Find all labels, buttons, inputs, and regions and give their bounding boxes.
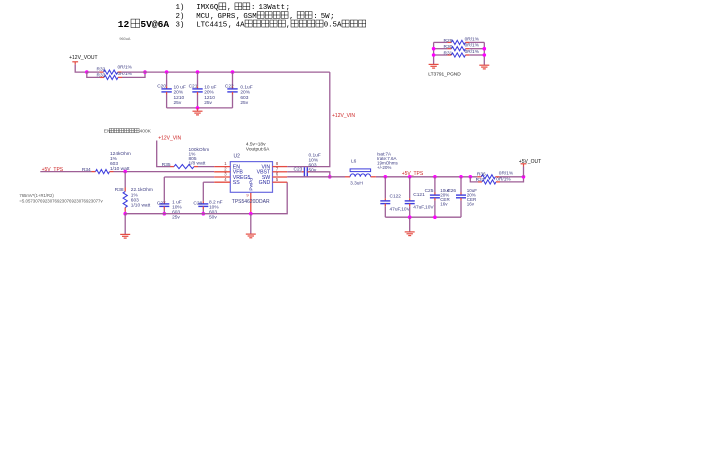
pin stub PwPd long (pin 9) <box>250 192 252 213</box>
svg-text:L6: L6 <box>351 159 357 165</box>
svg-text:47uF,10V: 47uF,10V <box>390 206 411 212</box>
svg-text:,: , <box>289 13 293 21</box>
svg-text:603: 603 <box>240 95 248 101</box>
svg-text:0.5A: 0.5A <box>324 22 342 30</box>
capacitor C26 <box>460 177 462 193</box>
svg-text:,: , <box>286 22 290 30</box>
pin stub GND (pin 5) <box>273 181 288 183</box>
svg-text:50v: 50v <box>209 215 217 221</box>
svg-text:3): 3) <box>176 22 185 30</box>
svg-text:5V@6A: 5V@6A <box>140 19 169 30</box>
svg-text:1%: 1% <box>131 192 139 198</box>
wire C23 to SW node <box>310 172 330 177</box>
wire L6 to output caps <box>376 176 478 178</box>
capacitor C28 <box>202 182 204 201</box>
svg-text:C21: C21 <box>189 84 198 90</box>
wire R37 bypass down <box>470 177 478 182</box>
wire R38 to gnd rail <box>124 212 126 214</box>
svg-text:,: , <box>227 4 231 12</box>
capacitor C25 <box>434 177 436 193</box>
svg-text:R35: R35 <box>162 162 171 168</box>
svg-text:SS: SS <box>233 180 240 186</box>
svg-text:C20: C20 <box>157 84 166 90</box>
wire ground rail <box>125 182 287 214</box>
svg-text:0.1uF: 0.1uF <box>240 85 252 91</box>
svg-text:C25: C25 <box>425 188 434 194</box>
wire R29 network right vertical <box>483 42 485 65</box>
junction R38 bottom <box>123 212 127 216</box>
svg-text:R32: R32 <box>97 67 106 73</box>
svg-text:400K: 400K <box>140 129 152 135</box>
resistor R38 <box>124 188 126 192</box>
ground below R38 <box>120 233 130 235</box>
wire VFB down to R38 <box>124 172 126 188</box>
svg-text:0R/1%: 0R/1% <box>118 65 133 71</box>
svg-text:1210: 1210 <box>174 95 185 101</box>
junction R32/R33 split <box>85 70 89 74</box>
resistor R30 <box>447 48 451 50</box>
svg-text:0R/1%: 0R/1% <box>499 171 514 177</box>
svg-text:960uA: 960uA <box>119 37 130 41</box>
wire row R31 left <box>434 54 448 56</box>
svg-text:+12V_VOUT: +12V_VOUT <box>69 55 98 61</box>
svg-text:+/-20%: +/-20% <box>377 165 391 170</box>
power +12V_VOUT symbol <box>72 61 78 63</box>
svg-text:,: , <box>228 22 232 30</box>
svg-text:4A: 4A <box>236 22 245 30</box>
junction C21 top <box>196 70 200 74</box>
svg-text:,: , <box>210 13 214 21</box>
wire R36 to +5V_OUT node <box>499 176 523 178</box>
wire row R31 right <box>469 54 484 56</box>
wire VBST to C23 <box>287 171 302 173</box>
svg-text:R30: R30 <box>444 44 453 50</box>
resistor R31 <box>447 54 451 56</box>
svg-text:10 uF: 10 uF <box>174 85 186 91</box>
svg-text:GND: GND <box>259 180 271 186</box>
svg-text:0R/1%: 0R/1% <box>465 36 480 42</box>
ground of input cap bank <box>193 110 203 112</box>
junction R32/R33 join <box>143 70 147 74</box>
wire SS row <box>203 181 214 183</box>
svg-text:603: 603 <box>131 197 139 203</box>
svg-text:EN: EN <box>104 129 111 135</box>
ground below U2 <box>246 233 256 235</box>
pin stub SS (pin 4) <box>214 181 230 183</box>
wire R33 bypass down-right <box>87 72 100 77</box>
svg-text:,: , <box>236 13 240 21</box>
svg-text:Voutput:6A: Voutput:6A <box>246 146 270 152</box>
pin stub SW (pin 6) <box>273 176 288 178</box>
svg-text:;: ; <box>330 13 334 21</box>
ground LT3791_PGND <box>429 63 439 65</box>
svg-text:LTC4415: LTC4415 <box>196 22 227 30</box>
junction C20 top <box>165 70 169 74</box>
junction C25 top <box>433 175 437 179</box>
junction output rail C121 <box>408 215 412 219</box>
resistor R35 <box>170 166 174 168</box>
svg-text:R31: R31 <box>444 50 453 56</box>
wire cap bank bottom rail <box>167 107 233 109</box>
capacitor C121 <box>409 177 411 199</box>
svg-text:R36: R36 <box>477 171 486 177</box>
junction C122 top <box>384 175 388 179</box>
svg-text:0R/1%: 0R/1% <box>465 43 480 49</box>
wire up to +5V_OUT <box>523 167 525 177</box>
svg-text:GPRS: GPRS <box>218 13 236 21</box>
wire PwPd to ground <box>250 214 252 234</box>
svg-text:R33: R33 <box>97 73 106 79</box>
junction C28 bottom <box>202 212 206 216</box>
svg-text:GSM: GSM <box>243 13 256 21</box>
svg-text:C22: C22 <box>225 84 234 90</box>
capacitor C122 <box>384 177 386 199</box>
svg-text:47uF,10V: 47uF,10V <box>413 205 434 211</box>
svg-text:+5V_OUT: +5V_OUT <box>519 159 541 165</box>
junction output rail C25 <box>433 215 437 219</box>
wire output ground stem <box>409 217 411 232</box>
svg-text:10 uF: 10 uF <box>204 85 216 91</box>
svg-text:1): 1) <box>176 4 185 12</box>
wire row R30 right <box>469 48 484 50</box>
svg-text:C27: C27 <box>157 200 166 206</box>
svg-text:3.3uH: 3.3uH <box>350 180 363 186</box>
resistor R36 <box>477 176 481 178</box>
svg-text:25v: 25v <box>172 215 180 221</box>
ground right of R31 <box>479 64 489 66</box>
wire row R29 right <box>469 41 484 43</box>
wire row R30 left <box>434 48 448 50</box>
svg-text:1210: 1210 <box>204 95 215 101</box>
svg-text:1/10 watt: 1/10 watt <box>131 203 151 209</box>
pin stub VBST (pin 7) <box>273 171 288 173</box>
svg-text:R34: R34 <box>82 167 91 173</box>
svg-text:765mV*(1+R1/R2): 765mV*(1+R1/R2) <box>19 193 54 198</box>
capacitor C23 (horizontal) <box>302 171 305 173</box>
resistor R34 <box>92 171 96 173</box>
wire +12V_VIN down to EN row <box>157 141 170 167</box>
pin stub VREG5 (pin 3) <box>214 176 230 178</box>
svg-text:C26: C26 <box>447 188 456 194</box>
svg-text:U2: U2 <box>234 154 241 160</box>
wire stub to ground <box>197 108 199 111</box>
svg-text:13Watt: 13Watt <box>258 4 285 12</box>
junction R36 split <box>469 175 473 179</box>
svg-text:C121: C121 <box>413 192 425 198</box>
junction C22 top <box>231 70 235 74</box>
svg-text:1/8 watt: 1/8 watt <box>189 160 206 166</box>
svg-text:=5.057307692307692307692307692: =5.0573076923076923076923076923077v <box>19 199 103 204</box>
svg-text:LT3791_PGND: LT3791_PGND <box>428 71 461 77</box>
wire +12V vertical down to VIN <box>287 72 330 167</box>
junction C121 top <box>408 175 412 179</box>
svg-text:C28: C28 <box>193 200 202 206</box>
ground of output caps <box>405 231 415 233</box>
svg-text:22.1kOhm: 22.1kOhm <box>131 187 153 193</box>
wire output cap bottom rail <box>385 216 461 218</box>
junction C26 top <box>459 175 463 179</box>
junction R31 right <box>483 53 487 57</box>
svg-text:25v: 25v <box>240 100 248 106</box>
svg-text:20%: 20% <box>204 90 214 96</box>
svg-text:R37: R37 <box>476 177 485 183</box>
capacitor C21 <box>197 72 199 86</box>
svg-text:R29: R29 <box>444 38 453 44</box>
junction C27 bottom <box>163 212 167 216</box>
power +5V_OUT symbol <box>521 163 527 165</box>
junction PwPd/ground rail <box>249 212 253 216</box>
inductor L6 <box>345 176 350 178</box>
svg-text:16v: 16v <box>467 201 475 206</box>
svg-text:12: 12 <box>118 19 130 30</box>
resistor R33 <box>100 76 104 78</box>
wire R29 network left vertical <box>433 42 435 64</box>
wire VREG5 row <box>164 176 214 178</box>
svg-text:R38: R38 <box>115 187 124 193</box>
svg-text:+12V_VIN: +12V_VIN <box>332 113 355 119</box>
capacitor C22 <box>232 72 234 86</box>
svg-text:25v: 25v <box>204 100 212 106</box>
svg-text::: : <box>313 13 317 21</box>
junction +5V_OUT <box>522 175 526 179</box>
svg-text:50v: 50v <box>309 167 317 173</box>
junction VFB/R38 <box>123 170 127 174</box>
capacitor C20 <box>166 72 168 86</box>
svg-text:C23: C23 <box>294 166 303 172</box>
resistor R32 <box>100 71 104 73</box>
wire from +12V_VOUT down to rail <box>75 65 87 73</box>
op-amp U2 TPS54620 body <box>230 162 272 193</box>
wire row R29 left <box>434 41 448 43</box>
svg-text:PwPd: PwPd <box>249 178 255 191</box>
junction R31 left <box>432 53 436 57</box>
pin stub VFB (pin 2) <box>214 171 230 173</box>
wire R33 bypass up to rail <box>122 72 145 77</box>
capacitor C27 <box>163 177 165 201</box>
junction cap bank ground <box>196 106 200 110</box>
junction R30 left <box>432 47 436 51</box>
svg-text:+12V_VIN: +12V_VIN <box>158 136 181 142</box>
svg-text:;: ; <box>286 4 290 12</box>
svg-text:TPS54620DDAR: TPS54620DDAR <box>232 199 270 205</box>
svg-text:5W: 5W <box>321 13 330 21</box>
wire +5V_TPS to R34 <box>40 171 91 173</box>
resistor R37 <box>478 181 482 183</box>
junction SW node <box>328 175 332 179</box>
svg-text:MCU: MCU <box>196 13 209 21</box>
wire +12V rail to corner <box>122 71 330 73</box>
pin stub EN (pin 1) <box>214 166 230 168</box>
svg-text:20%: 20% <box>240 90 250 96</box>
svg-text:25v: 25v <box>174 100 182 106</box>
pin stub VIN (pin 8) <box>273 166 288 168</box>
wire R35 to EN pin <box>198 166 214 168</box>
resistor R29 <box>447 41 451 43</box>
svg-text:16v: 16v <box>440 201 448 206</box>
junction R30 right <box>483 47 487 51</box>
svg-text:20%: 20% <box>174 90 184 96</box>
svg-text:0R/1%: 0R/1% <box>465 49 480 55</box>
svg-text:+5V_TPS: +5V_TPS <box>402 171 424 177</box>
wire SW row <box>287 176 345 178</box>
svg-text:2): 2) <box>176 13 185 21</box>
svg-text:C122: C122 <box>390 194 402 200</box>
wire R34 to VFB pin <box>114 171 215 173</box>
svg-text::: : <box>251 4 255 12</box>
wire R37 bypass up <box>500 177 524 182</box>
wire R38 ground stem <box>124 214 126 235</box>
wire rail to R32 <box>87 71 100 73</box>
svg-text:IMX6Q: IMX6Q <box>196 4 219 12</box>
